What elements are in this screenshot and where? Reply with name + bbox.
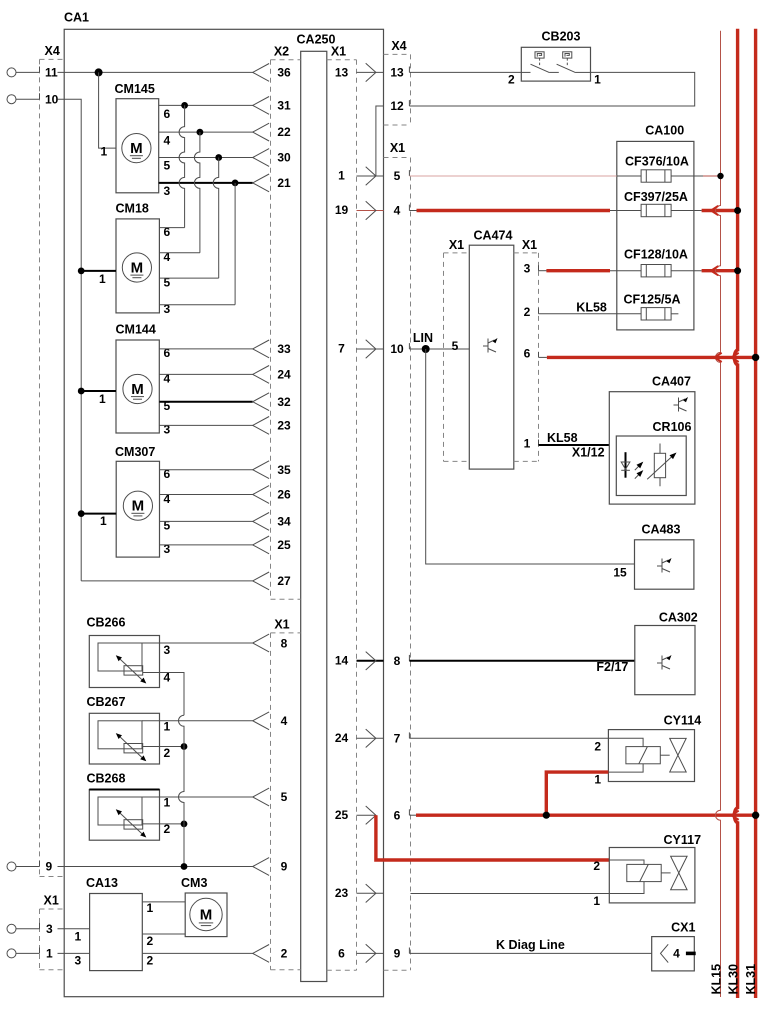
svg-text:CY114: CY114 bbox=[664, 714, 702, 728]
svg-text:X2: X2 bbox=[274, 45, 289, 59]
junction node CB267-2 bbox=[181, 743, 188, 750]
junction node CM145-4 bbox=[197, 129, 204, 136]
svg-text:8: 8 bbox=[394, 654, 401, 668]
wire CA474-1 to CA407 bbox=[539, 431, 610, 459]
svg-text:KL31: KL31 bbox=[744, 964, 758, 995]
sensor CB268 bbox=[87, 772, 171, 841]
svg-text:5: 5 bbox=[281, 790, 288, 804]
connector X4 (right) bbox=[384, 39, 411, 125]
motor CM145 bbox=[115, 82, 171, 198]
wire pin9 K diagnostic line bbox=[409, 938, 651, 953]
svg-text:KL30: KL30 bbox=[726, 964, 740, 995]
svg-text:2: 2 bbox=[508, 73, 515, 87]
wire CM144-6 to pin 33 bbox=[159, 340, 291, 358]
svg-text:6: 6 bbox=[524, 347, 531, 361]
svg-text:6: 6 bbox=[164, 467, 171, 481]
svg-text:35: 35 bbox=[277, 463, 291, 477]
photo sensor CR106 bbox=[616, 420, 691, 496]
svg-text:F2/17: F2/17 bbox=[596, 660, 628, 674]
wire CM18 pin stubs bbox=[159, 228, 235, 305]
svg-text:6: 6 bbox=[338, 947, 345, 961]
svg-text:1: 1 bbox=[524, 437, 531, 451]
pin CA474-3 bbox=[524, 261, 539, 275]
wire CA474-2 to CF125 bbox=[539, 300, 642, 314]
wire CM145-5 to pin 30 bbox=[159, 149, 291, 167]
svg-text:12: 12 bbox=[390, 99, 404, 113]
svg-text:1: 1 bbox=[164, 720, 171, 734]
pin CA474-2 bbox=[524, 305, 539, 319]
sensor CB267 bbox=[87, 695, 171, 764]
wire CF397 to KL30 bbox=[671, 210, 738, 212]
svg-text:CA13: CA13 bbox=[86, 876, 118, 890]
fuse CF376/10A bbox=[625, 155, 689, 183]
wire CB203-1 return to pin12 bbox=[409, 72, 694, 106]
pin 1 out bbox=[338, 167, 383, 185]
svg-text:1: 1 bbox=[338, 169, 345, 183]
svg-text:CF397/25A: CF397/25A bbox=[624, 190, 688, 204]
wire CA13-2 to pin 2 bbox=[142, 945, 287, 968]
svg-text:4: 4 bbox=[164, 492, 171, 506]
arrow CF128 bbox=[711, 266, 718, 275]
wire CM18 pin1 bbox=[81, 271, 116, 286]
svg-text:9: 9 bbox=[281, 860, 288, 874]
svg-text:4: 4 bbox=[164, 133, 171, 147]
wire pin6 red to KL31 bbox=[409, 814, 755, 816]
bus KL31 bbox=[744, 29, 758, 998]
connector X1 (CA250 right) bbox=[327, 45, 357, 971]
sensor CB266 bbox=[87, 616, 171, 688]
wire common return to pin 27 bbox=[81, 572, 291, 590]
svg-text:CB203: CB203 bbox=[542, 30, 581, 44]
svg-text:X1: X1 bbox=[522, 238, 537, 252]
wire CB266-3 to pin 8 bbox=[142, 634, 288, 652]
svg-text:6: 6 bbox=[164, 107, 171, 121]
svg-text:3: 3 bbox=[164, 643, 171, 657]
svg-text:10: 10 bbox=[45, 92, 59, 106]
control unit CA1 bbox=[64, 11, 384, 997]
svg-text:30: 30 bbox=[277, 151, 291, 165]
svg-text:25: 25 bbox=[335, 808, 349, 822]
bus KL15 bbox=[709, 31, 723, 997]
svg-text:CX1: CX1 bbox=[671, 921, 695, 935]
svg-text:CM144: CM144 bbox=[116, 323, 156, 337]
wire CM144-4 to pin 24 bbox=[159, 366, 291, 384]
svg-text:CF376/10A: CF376/10A bbox=[625, 155, 689, 169]
wire CB268-2 stub bbox=[143, 823, 184, 825]
arrow CA474-6 a bbox=[715, 353, 722, 362]
svg-text:5: 5 bbox=[164, 275, 171, 289]
svg-text:X4: X4 bbox=[391, 39, 406, 53]
pin 13 right bbox=[390, 66, 409, 80]
svg-text:X1: X1 bbox=[274, 617, 289, 631]
wire bundle CM145-3 to CM18-3 bbox=[234, 183, 236, 305]
junction node CY114 branch bbox=[543, 812, 550, 819]
svg-text:LIN: LIN bbox=[413, 331, 433, 345]
svg-text:X4: X4 bbox=[45, 44, 60, 58]
motor CM18 bbox=[116, 202, 171, 317]
svg-text:34: 34 bbox=[277, 515, 291, 529]
wire CA474-3 to CF128 bbox=[539, 270, 642, 272]
svg-text:2: 2 bbox=[147, 953, 154, 967]
switch CB203 bbox=[508, 30, 601, 87]
pin 6 right bbox=[394, 808, 410, 822]
svg-text:7: 7 bbox=[394, 731, 401, 745]
central unit CA250 bbox=[297, 33, 336, 982]
svg-text:CB267: CB267 bbox=[87, 695, 126, 709]
svg-text:3: 3 bbox=[46, 922, 53, 936]
svg-text:CA100: CA100 bbox=[645, 124, 684, 138]
wire bundle CM145-6 to CM18-6 bbox=[179, 105, 185, 227]
motor CM144 bbox=[116, 323, 171, 437]
wire CM307-6 to pin 35 bbox=[160, 461, 291, 479]
svg-text:CB266: CB266 bbox=[87, 616, 126, 630]
svg-text:26: 26 bbox=[277, 488, 291, 502]
sensor unit CA407 bbox=[609, 375, 695, 505]
svg-text:CA474: CA474 bbox=[474, 229, 513, 243]
valve CY114 bbox=[594, 714, 701, 787]
svg-text:1: 1 bbox=[46, 947, 53, 961]
junction node CM144-1 bbox=[78, 388, 85, 395]
svg-text:1: 1 bbox=[594, 773, 601, 787]
wire CM145-6 to pin 31 bbox=[159, 97, 291, 115]
wire pin23 to CY117-1 bbox=[411, 893, 610, 895]
junction node CM307-1 bbox=[78, 510, 85, 517]
junction node CM145-3 bbox=[232, 180, 239, 187]
terminal pin 9 bbox=[7, 860, 53, 874]
wire sensor chain vertical bbox=[179, 715, 184, 866]
svg-text:CM18: CM18 bbox=[116, 202, 149, 216]
node CA474-6/KL31 bbox=[752, 354, 759, 361]
wire pin4 to CF397 bbox=[409, 210, 641, 212]
wire CA474-6 to KL31 bbox=[547, 356, 756, 359]
svg-text:23: 23 bbox=[277, 419, 291, 433]
wire pin7 to CY114-2 bbox=[409, 737, 608, 739]
svg-text:3: 3 bbox=[164, 542, 171, 556]
junction node CB268-2 bbox=[181, 821, 188, 828]
svg-text:6: 6 bbox=[164, 346, 171, 360]
wire row 11 to pin 36 bbox=[58, 64, 291, 82]
pin 8 right bbox=[394, 654, 410, 668]
wire CF376 to KL15 bbox=[671, 175, 720, 177]
terminal pin 1 bbox=[7, 947, 53, 961]
wire X1-1 to CA13-3 bbox=[58, 953, 90, 967]
svg-text:36: 36 bbox=[277, 66, 291, 80]
junction node CM145-5 bbox=[215, 154, 222, 161]
wire CM144-3 to pin 23 bbox=[159, 417, 291, 435]
svg-text:3: 3 bbox=[75, 953, 82, 967]
svg-text:1: 1 bbox=[99, 392, 106, 406]
svg-text:1: 1 bbox=[594, 73, 601, 87]
svg-text:K Diag Line: K Diag Line bbox=[496, 938, 565, 952]
svg-text:X1/12: X1/12 bbox=[572, 445, 605, 459]
svg-text:CM145: CM145 bbox=[115, 82, 155, 96]
wire CF128 to KL30 bbox=[671, 270, 738, 272]
svg-text:CA302: CA302 bbox=[659, 610, 698, 624]
connector X2 (CA250 left) bbox=[271, 45, 301, 600]
terminal pin 3 bbox=[7, 922, 53, 936]
svg-text:27: 27 bbox=[277, 574, 291, 588]
svg-text:32: 32 bbox=[277, 395, 291, 409]
wire CM144-5 to pin 32 bbox=[159, 393, 291, 411]
svg-text:CM3: CM3 bbox=[181, 876, 207, 890]
connector X1 (left bottom) bbox=[40, 894, 64, 970]
pin 25 out bbox=[335, 806, 376, 824]
wire bundle CM145-4 to CM18-4 bbox=[194, 132, 199, 253]
arrow row6 bbox=[732, 811, 739, 820]
valve CY117 bbox=[593, 833, 701, 908]
svg-text:6: 6 bbox=[164, 225, 171, 239]
pin 12 right bbox=[390, 99, 409, 113]
svg-text:21: 21 bbox=[277, 176, 291, 190]
svg-text:5: 5 bbox=[164, 159, 171, 173]
svg-text:CA407: CA407 bbox=[652, 375, 691, 389]
svg-text:13: 13 bbox=[390, 66, 404, 80]
fuse CF125/5A bbox=[624, 293, 681, 320]
motor CM3 bbox=[181, 876, 227, 937]
wire CM145-4 to pin 22 bbox=[159, 123, 291, 141]
pin 4 right bbox=[394, 204, 410, 218]
wire pin5 to CF376 bbox=[409, 175, 641, 177]
svg-text:X1: X1 bbox=[449, 238, 464, 252]
svg-text:1: 1 bbox=[164, 796, 171, 810]
svg-text:15: 15 bbox=[613, 566, 627, 580]
svg-text:KL58: KL58 bbox=[547, 431, 578, 445]
svg-text:3: 3 bbox=[524, 261, 531, 275]
arrow CF397 bbox=[711, 206, 718, 215]
pin 24 out bbox=[335, 729, 384, 747]
svg-text:4: 4 bbox=[394, 204, 401, 218]
svg-text:11: 11 bbox=[45, 66, 58, 80]
svg-text:KL15: KL15 bbox=[709, 964, 723, 995]
pin 9 right bbox=[394, 947, 410, 961]
svg-text:24: 24 bbox=[335, 731, 349, 745]
svg-text:4: 4 bbox=[281, 714, 288, 728]
module CA13 bbox=[86, 876, 142, 971]
wire pin13 to CB203 bbox=[409, 71, 521, 73]
wire X1-3 to CA13-1 bbox=[58, 929, 90, 944]
pin 23 out bbox=[335, 884, 384, 902]
svg-text:2: 2 bbox=[594, 740, 601, 754]
connector X1 (CA250 left lower) bbox=[271, 617, 301, 970]
svg-text:5: 5 bbox=[164, 519, 171, 533]
gateway CA474 bbox=[444, 229, 539, 470]
wire pin10 to CA474 bbox=[409, 331, 469, 353]
svg-text:13: 13 bbox=[335, 66, 349, 80]
wire CM144 pin1 bbox=[81, 391, 116, 406]
svg-text:CA483: CA483 bbox=[642, 522, 681, 536]
svg-text:CF128/10A: CF128/10A bbox=[624, 248, 688, 262]
wire pin12 internal link bbox=[376, 106, 384, 176]
svg-text:5: 5 bbox=[394, 169, 401, 183]
wire CM307-5 to pin 34 bbox=[160, 513, 291, 531]
connector X1 (right) bbox=[384, 141, 411, 970]
wire bundle CM145-5 to CM18-5 bbox=[213, 158, 218, 279]
node LIN bbox=[422, 345, 430, 353]
wire CB267-2 stub bbox=[143, 746, 184, 748]
svg-text:4: 4 bbox=[673, 947, 680, 961]
svg-text:CA1: CA1 bbox=[64, 11, 89, 25]
wire CA13-2 to CM3 bbox=[142, 934, 185, 948]
wire CM307 pin1 bbox=[81, 514, 116, 528]
sensor CA302 bbox=[635, 610, 698, 694]
svg-text:X1: X1 bbox=[44, 894, 59, 908]
junction node CM18-1 bbox=[78, 268, 85, 275]
svg-text:1: 1 bbox=[100, 514, 107, 528]
pin CA474-6 bbox=[524, 347, 547, 361]
pin CA474-1 bbox=[524, 437, 539, 451]
wire CY114-1 red branch bbox=[546, 772, 608, 815]
bus KL30 bbox=[726, 29, 740, 998]
sensor CA483 bbox=[613, 522, 694, 589]
wire CM145-3 to pin 21 bbox=[159, 174, 291, 192]
svg-text:19: 19 bbox=[335, 203, 349, 217]
svg-text:24: 24 bbox=[277, 368, 291, 382]
svg-text:CY117: CY117 bbox=[664, 833, 702, 847]
diagnostic connector CX1 bbox=[652, 921, 696, 971]
wire LIN to CA483 bbox=[426, 349, 635, 564]
wire CM145 pin1 feed bbox=[99, 72, 116, 158]
wire CB266-4 down bbox=[143, 673, 184, 716]
wire CM307-4 to pin 26 bbox=[160, 486, 291, 504]
fuse CF397/25A bbox=[624, 190, 688, 217]
svg-text:8: 8 bbox=[281, 637, 288, 651]
pin 7 out bbox=[338, 340, 383, 358]
svg-text:1: 1 bbox=[147, 901, 154, 915]
svg-text:6: 6 bbox=[394, 808, 401, 822]
wire CF125 stub bbox=[671, 313, 678, 315]
svg-text:14: 14 bbox=[335, 653, 349, 667]
svg-text:5: 5 bbox=[452, 339, 459, 353]
wire CM307-3 to pin 25 bbox=[160, 536, 291, 554]
node CF128/KL30 bbox=[734, 267, 741, 274]
wire CB267-1 to pin 4 bbox=[142, 712, 288, 730]
svg-text:X1: X1 bbox=[390, 141, 405, 155]
svg-text:KL58: KL58 bbox=[576, 300, 607, 314]
svg-text:3: 3 bbox=[164, 423, 171, 437]
pin 19 out bbox=[335, 201, 384, 219]
svg-text:9: 9 bbox=[46, 860, 53, 874]
pin 6 out bbox=[338, 944, 383, 962]
node CF397/KL30 bbox=[734, 207, 741, 214]
pin 10 right bbox=[390, 342, 409, 356]
svg-text:10: 10 bbox=[390, 342, 404, 356]
svg-text:CR106: CR106 bbox=[653, 420, 692, 434]
node row6/KL31 bbox=[752, 812, 759, 819]
connector X4 (left) bbox=[40, 44, 64, 877]
svg-text:X1: X1 bbox=[331, 45, 346, 59]
svg-text:1: 1 bbox=[75, 929, 82, 943]
terminal pin 10 bbox=[7, 92, 59, 106]
junction node CM145-6 bbox=[181, 102, 188, 109]
motor CM307 bbox=[115, 445, 171, 557]
wire pin25 red branch to CY117-2 bbox=[376, 815, 609, 860]
svg-text:22: 22 bbox=[277, 125, 291, 139]
node CF376/KL15 bbox=[717, 173, 723, 179]
svg-text:2: 2 bbox=[164, 746, 171, 760]
svg-text:2: 2 bbox=[281, 947, 288, 961]
svg-text:M: M bbox=[200, 907, 213, 924]
terminal pin 11 bbox=[7, 66, 58, 80]
svg-text:CF125/5A: CF125/5A bbox=[624, 293, 681, 307]
pin 5 right bbox=[394, 169, 410, 183]
svg-text:3: 3 bbox=[164, 184, 171, 198]
svg-text:2: 2 bbox=[593, 859, 600, 873]
wire CB268-1 to pin 5 bbox=[142, 788, 288, 806]
svg-text:4: 4 bbox=[164, 372, 171, 386]
svg-text:23: 23 bbox=[335, 886, 349, 900]
wire row 10 vertical feed bbox=[58, 99, 82, 581]
wire pin8 to CA302 bbox=[409, 660, 634, 674]
svg-text:2: 2 bbox=[147, 934, 154, 948]
svg-text:1: 1 bbox=[101, 145, 108, 159]
junction node chain/row9 bbox=[181, 863, 188, 870]
fuse CF128/10A bbox=[624, 248, 688, 277]
svg-text:1: 1 bbox=[593, 894, 600, 908]
wire row 9 to pin 9 bbox=[58, 858, 288, 876]
fuse box CA100 bbox=[617, 124, 694, 330]
svg-text:CA250: CA250 bbox=[297, 33, 336, 47]
svg-text:2: 2 bbox=[524, 305, 531, 319]
wire CA13-1 to CM3 bbox=[142, 901, 185, 915]
svg-text:33: 33 bbox=[277, 342, 291, 356]
svg-text:CM307: CM307 bbox=[115, 445, 155, 459]
svg-text:31: 31 bbox=[277, 99, 291, 113]
svg-text:7: 7 bbox=[338, 342, 345, 356]
svg-text:25: 25 bbox=[277, 538, 291, 552]
pin 14 out bbox=[335, 652, 384, 670]
svg-text:9: 9 bbox=[394, 947, 401, 961]
pin 7 right bbox=[394, 731, 410, 745]
pin 13 out bbox=[335, 63, 384, 81]
svg-text:1: 1 bbox=[99, 272, 106, 286]
arrow CA474-6 b bbox=[732, 353, 739, 362]
junction node row11/CM145 bbox=[95, 68, 103, 76]
svg-text:CB268: CB268 bbox=[87, 772, 126, 786]
